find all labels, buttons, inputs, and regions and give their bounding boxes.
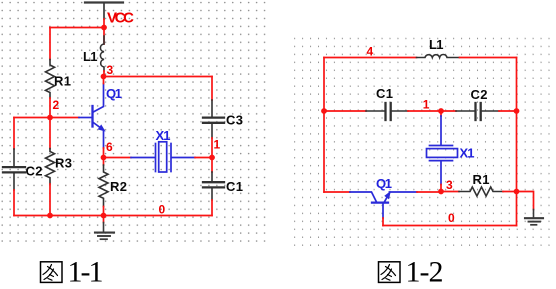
wire node3 to R1 [441, 191, 459, 193]
svg-text:L1: L1 [83, 49, 98, 64]
junction node 1 [209, 155, 215, 161]
capacitor C1 [366, 103, 408, 120]
wire node1 down to X1 [440, 111, 442, 116]
node 2 wire (base wire) [14, 117, 79, 119]
svg-text:Q1: Q1 [106, 86, 122, 101]
junction node 6 [101, 155, 107, 161]
wire node1 to C2 [441, 110, 456, 112]
wire C1 to node 1 [408, 110, 441, 112]
svg-text:C2: C2 [26, 163, 43, 178]
capacitor C2 [3, 149, 25, 190]
capacitor C1 [203, 172, 224, 200]
svg-text:R1: R1 [473, 172, 490, 187]
junction VCC node [101, 25, 107, 31]
wire node6 down to R2 [103, 158, 105, 166]
top rail right segment [460, 57, 517, 59]
svg-text:L1: L1 [429, 37, 444, 52]
crystal X1 [427, 116, 458, 185]
wire emitter stub to node 6 [103, 148, 105, 158]
wire node1 down to C1 [211, 158, 213, 173]
node 6 wire to X1 [104, 157, 132, 159]
svg-text:VCC: VCC [107, 9, 134, 26]
junction node 2 [47, 115, 53, 121]
bottom rail wire net 0 [383, 225, 517, 227]
junction R3-bottom [47, 213, 53, 219]
transistor Q1 [350, 192, 417, 218]
svg-text:C3: C3 [226, 112, 243, 127]
svg-text:0: 0 [159, 202, 166, 216]
svg-text:R1: R1 [54, 74, 71, 89]
wire Q1 base stub [382, 218, 384, 226]
svg-text:2: 2 [53, 98, 60, 112]
ground symbol right [525, 210, 543, 225]
junction node 3 [101, 74, 107, 80]
right rail wire [516, 58, 518, 226]
wire node3 corner down to C3 [211, 77, 213, 101]
wire right rail to ground [517, 192, 534, 210]
crystal X1 [131, 142, 195, 172]
caption hanzi TU box 1-2 [379, 262, 401, 283]
svg-text:R2: R2 [110, 179, 127, 194]
wire X1 to node 1 [195, 157, 212, 159]
wire left rail to Q1 collector [324, 191, 350, 193]
capacitor C2 [456, 103, 499, 120]
top rail wire net 4 [324, 57, 417, 59]
wire Q1 emitter to node 3 [417, 191, 441, 193]
svg-text:R3: R3 [55, 156, 72, 171]
svg-text:1-1: 1-1 [68, 256, 104, 289]
VCC power symbol [85, 3, 123, 20]
junction left rail [321, 108, 327, 114]
svg-text:4: 4 [367, 45, 374, 59]
svg-text:C1: C1 [226, 179, 243, 194]
wire VCC stub [103, 19, 105, 28]
resistor R2 [99, 165, 108, 207]
svg-text:3: 3 [107, 63, 114, 77]
left rail wire [323, 58, 325, 193]
junction node 1 [438, 108, 444, 114]
svg-text:C1: C1 [376, 86, 393, 101]
wire R2 bottom [103, 207, 105, 216]
wire VCC to R1 top [50, 27, 104, 29]
svg-text:1: 1 [423, 97, 430, 111]
svg-text:Q1: Q1 [376, 176, 392, 191]
node 3 wire to C3 branch [104, 76, 213, 78]
transistor Q1 [79, 84, 105, 149]
caption hanzi TU box 1-1 [41, 262, 63, 283]
wire left rail to C1 [324, 110, 366, 112]
junction node 3 [438, 189, 444, 195]
svg-text:C2: C2 [471, 87, 488, 102]
svg-text:1: 1 [214, 138, 221, 152]
svg-text:X1: X1 [156, 128, 171, 143]
wire left rail down to C2 [13, 118, 15, 150]
wire R1 branch top [49, 28, 51, 60]
wire L1 bottom to node 3 [103, 71, 105, 77]
junction right rail bottom [514, 189, 520, 195]
wire R1 bottom to node 2 [49, 98, 51, 118]
wire C1 bottom to bottom rail [211, 200, 213, 216]
wire C2 to right rail [499, 110, 517, 112]
svg-text:3: 3 [446, 178, 453, 192]
wire X1 to node 3 [440, 185, 442, 192]
svg-text:0: 0 [448, 211, 455, 225]
svg-text:X1: X1 [460, 146, 475, 161]
wire node2 down to R3 [49, 118, 51, 149]
wire C3 to node 1 [211, 138, 213, 158]
wire R3 bottom [49, 184, 51, 216]
capacitor C3 [203, 100, 224, 138]
wire C2 bottom to bottom rail [13, 190, 15, 216]
bottom rail wire net 0 [14, 215, 212, 217]
inductor L1 [100, 28, 104, 72]
junction R2-bottom [101, 213, 107, 219]
junction right rail top [514, 108, 520, 114]
wire R1 to right rail [503, 191, 517, 193]
resistor R3 [46, 149, 55, 185]
wire collector stub [103, 77, 105, 84]
resistor R1 [459, 187, 503, 196]
inductor L1 [417, 54, 460, 57]
svg-text:6: 6 [106, 140, 113, 154]
ground symbol left [95, 216, 114, 240]
svg-text:1-2: 1-2 [406, 256, 444, 289]
resistor R1 [46, 60, 55, 99]
